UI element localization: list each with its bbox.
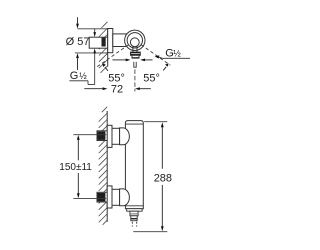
- 55 deg arrow left: [112, 59, 130, 62]
- top union tailpiece (front view): [112, 128, 120, 144]
- svg-text:55°: 55°: [143, 73, 160, 85]
- outlet thread dark band: [131, 218, 137, 219]
- svg-text:288: 288: [154, 172, 172, 184]
- escutcheon Ø57 (top view, edge-on): [108, 29, 113, 53]
- S-union tailpiece (top view): [113, 34, 127, 47]
- G 1/2 left arrow up at pipe: [93, 48, 96, 53]
- 288 dimension line and arrows: [161, 122, 164, 231]
- body top cap line: [125, 123, 143, 125]
- supply pipe in wall (top view): [89, 37, 108, 48]
- 72 dimension line right part: [135, 87, 151, 90]
- handle neck: [133, 46, 137, 53]
- outlet thread step 2: [131, 216, 137, 221]
- body cylinder (front view): [125, 121, 143, 209]
- handle stem: [134, 62, 136, 68]
- body bottom cap line: [125, 205, 143, 207]
- handle center extension line: [134, 69, 136, 91]
- wall face line (front view): [106, 111, 108, 222]
- wall hatching (top view): [99, 22, 108, 73]
- 55 deg left leader arrow: [102, 63, 108, 70]
- svg-text:72: 72: [111, 84, 123, 96]
- top union nut (front view): [120, 128, 130, 145]
- union nut inner circle: [127, 33, 142, 48]
- wall hatching (front view): [99, 107, 108, 225]
- 150 dimension extension lines: [73, 135, 106, 199]
- handle ball (top view): [130, 38, 139, 47]
- 72 dimension line left part: [84, 87, 107, 90]
- bottom band under body: [127, 209, 142, 212]
- bottom union nut (front view): [120, 189, 130, 206]
- 55 deg arrow right: [140, 59, 152, 62]
- svg-text:G½: G½: [70, 70, 87, 82]
- wall face line (top view): [107, 29, 109, 67]
- swivel dashed line left 55: [97, 45, 129, 67]
- union nut outer circle: [125, 30, 145, 50]
- svg-text:55°: 55°: [108, 72, 125, 84]
- top escutcheon (front view): [107, 125, 112, 147]
- outlet step 1 dark line: [130, 213, 137, 215]
- dia 57 dimension line and arrows: [76, 17, 79, 70]
- G 1/2 left underline and leader: [69, 53, 94, 84]
- bottom supply pipe in wall (front view): [97, 192, 108, 202]
- handle flange: [131, 52, 141, 55]
- 150 dimension line and arrows: [77, 135, 80, 198]
- handle block: [132, 55, 139, 58]
- outlet step 1: [130, 211, 138, 216]
- 288 dimension extension lines: [133, 122, 167, 232]
- dia 57 dimension extension lines: [75, 29, 108, 53]
- swivel dashed line right 55: [141, 45, 170, 65]
- svg-text:Ø 57: Ø 57: [66, 36, 90, 48]
- svg-text:150±11: 150±11: [59, 162, 92, 173]
- bottom union tailpiece (front view): [112, 189, 120, 205]
- bottom escutcheon (front view): [107, 186, 112, 208]
- top supply pipe in wall (front view): [97, 131, 108, 141]
- hose dashed lines: [132, 222, 136, 227]
- svg-text:G½: G½: [165, 47, 181, 59]
- G 1/2 left arrow down at pipe: [93, 29, 96, 37]
- G 1/2 right underline and leader arrow: [155, 55, 190, 58]
- 55 deg right leader arrow: [163, 63, 168, 70]
